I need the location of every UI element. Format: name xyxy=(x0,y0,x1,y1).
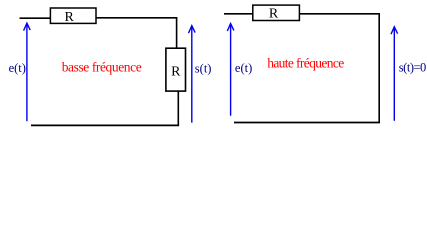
wire bottom (left circuit) xyxy=(31,124,179,126)
wire right branch upper segment xyxy=(176,17,178,48)
output arrow s(t), right circuit xyxy=(391,27,398,121)
svg-text:basse fréquence: basse fréquence xyxy=(62,60,142,75)
svg-text:R: R xyxy=(171,65,181,80)
resistor R1 (series resistor, left circuit) xyxy=(50,8,96,23)
wire top-right segment (right circuit) xyxy=(299,13,380,15)
svg-text:e(t): e(t) xyxy=(9,61,26,75)
source arrow e(t), left circuit xyxy=(24,23,31,121)
resistor R3 (series resistor, right circuit) xyxy=(253,5,300,20)
svg-text:s(t)=0: s(t)=0 xyxy=(399,60,427,74)
svg-text:R: R xyxy=(269,6,279,21)
wire right side (right circuit) xyxy=(378,13,380,123)
wire top-left segment xyxy=(20,17,52,19)
wire top-right segment xyxy=(96,17,177,19)
source arrow e(t), right circuit xyxy=(227,24,234,116)
resistor R2 (shunt resistor, left circuit) xyxy=(166,48,186,91)
svg-text:haute fréquence: haute fréquence xyxy=(267,56,344,71)
wire top-left segment (right circuit) xyxy=(224,13,253,15)
svg-text:s(t): s(t) xyxy=(195,61,212,75)
wire bottom (right circuit) xyxy=(234,122,380,124)
svg-text:e(t): e(t) xyxy=(235,61,252,75)
wire right branch lower segment xyxy=(177,91,179,125)
svg-text:R: R xyxy=(65,10,75,25)
output arrow s(t), left circuit xyxy=(189,26,196,123)
